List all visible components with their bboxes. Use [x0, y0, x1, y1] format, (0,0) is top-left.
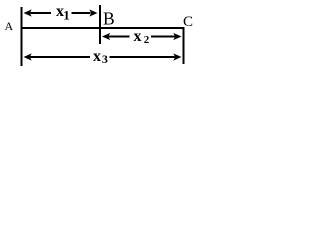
tick line A [21, 7, 23, 66]
svg-text:B: B [103, 8, 115, 28]
dimension x1: right shaft [72, 12, 91, 14]
dimension x3: left shaft [29, 56, 90, 58]
svg-text:A: A [5, 19, 14, 33]
dimension x1: left shaft [29, 12, 51, 14]
svg-text:x: x [134, 28, 142, 45]
dimension x2: left shaft [107, 36, 130, 38]
tick line C [183, 27, 185, 64]
svg-text:C: C [183, 14, 193, 30]
svg-text:1: 1 [63, 8, 69, 23]
dimension x3: right shaft [110, 56, 176, 58]
dimension x2: right shaft [151, 36, 175, 38]
baseline rail A-to-C [21, 27, 185, 29]
dimension x1: right arrowhead [89, 9, 97, 16]
background [0, 0, 202, 76]
dimension x3: right arrowhead [173, 53, 181, 60]
dimension x2: right arrowhead [173, 33, 181, 40]
dimension x3: left arrowhead [24, 53, 32, 60]
svg-text:x: x [93, 48, 101, 65]
dimension x1: left arrowhead [24, 9, 32, 16]
svg-text:2: 2 [144, 34, 150, 46]
svg-text:3: 3 [102, 52, 108, 66]
dimension x2: left arrowhead [102, 33, 110, 40]
tick line B [99, 5, 101, 44]
